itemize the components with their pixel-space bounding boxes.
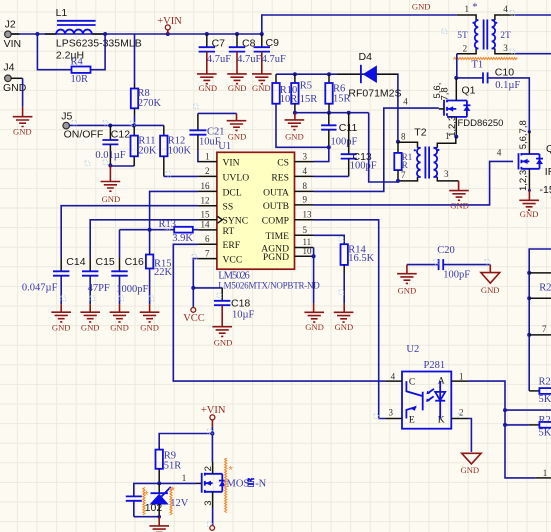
svg-text:U1: U1 <box>218 141 231 152</box>
node gate junction <box>157 481 161 485</box>
svg-text:RES: RES <box>271 172 289 183</box>
svg-text:-15: -15 <box>540 184 551 196</box>
svg-text:6: 6 <box>205 234 210 244</box>
svg-text:P281: P281 <box>424 360 446 371</box>
wire VCC pin to port <box>191 259 198 308</box>
wire DCL to R15 column <box>150 191 199 252</box>
transformer T2 <box>414 126 440 178</box>
wire T1 pin3 out <box>515 53 551 55</box>
svg-text:MOS: MOS <box>227 478 250 489</box>
svg-text:7: 7 <box>401 170 406 180</box>
power port +VIN top <box>157 16 182 34</box>
transformer T1 <box>457 2 511 70</box>
svg-text:C14: C14 <box>66 256 85 268</box>
svg-text:ON/OFF: ON/OFF <box>64 129 104 141</box>
svg-text:GND: GND <box>481 285 500 295</box>
svg-text:4: 4 <box>403 96 408 106</box>
svg-text:-N: -N <box>255 478 266 489</box>
svg-text:1: 1 <box>205 151 210 161</box>
svg-text:K: K <box>438 415 445 426</box>
svg-text:GND: GND <box>450 200 469 210</box>
ground symbol C7 <box>197 74 217 93</box>
capacitor C18 <box>214 288 255 327</box>
resistor R5 <box>291 74 317 113</box>
svg-text:2: 2 <box>203 466 214 471</box>
capacitor 102 <box>126 483 163 516</box>
svg-text:4: 4 <box>391 371 396 381</box>
svg-text:U2: U2 <box>406 344 419 355</box>
svg-text:8: 8 <box>303 181 308 191</box>
svg-text:UVLO: UVLO <box>223 172 250 183</box>
svg-text:3: 3 <box>203 501 214 506</box>
svg-text:1000pF: 1000pF <box>116 284 148 295</box>
U2 pin 4 C <box>385 371 415 387</box>
svg-text:2: 2 <box>205 166 210 176</box>
svg-text:+VIN: +VIN <box>157 16 182 27</box>
zener diode 12V <box>150 483 189 516</box>
svg-text:*: * <box>229 465 234 477</box>
svg-text:22K: 22K <box>154 267 173 278</box>
capacitor C8 <box>229 34 262 74</box>
wire +VIN to R9/MOSFET <box>159 427 214 447</box>
svg-text:OUTB: OUTB <box>263 201 289 212</box>
svg-text:100pF: 100pF <box>350 160 377 171</box>
svg-text:VCC: VCC <box>183 313 205 324</box>
svg-text:15: 15 <box>201 210 211 220</box>
U1 pin stubs <box>198 162 313 259</box>
svg-text:COMP: COMP <box>262 216 289 227</box>
svg-text:J5: J5 <box>61 111 72 123</box>
svg-text:FDD86250: FDD86250 <box>458 118 504 129</box>
T2 pin 7 <box>398 170 421 181</box>
svg-text:4.7uF: 4.7uF <box>207 54 231 65</box>
svg-text:7,8: 7,8 <box>440 87 451 100</box>
svg-text:GND: GND <box>140 322 159 332</box>
svg-text:10: 10 <box>303 246 313 256</box>
wire T1 pin2 down to node <box>454 54 458 80</box>
resistor R27 <box>505 415 551 439</box>
svg-text:LPS6235-335MLB: LPS6235-335MLB <box>56 37 142 49</box>
svg-text:L1: L1 <box>56 7 68 19</box>
wire COMP to U2 <box>314 220 386 419</box>
wire CS pin <box>314 147 329 161</box>
svg-text:270K: 270K <box>138 98 162 109</box>
MOS-N source lead <box>203 492 214 526</box>
svg-text:100K: 100K <box>168 145 192 156</box>
svg-text:1: 1 <box>543 468 548 478</box>
svg-text:GND: GND <box>110 322 129 332</box>
svg-text:GND: GND <box>13 127 32 137</box>
capacitor C12 <box>95 125 130 165</box>
svg-text:GND: GND <box>102 194 121 204</box>
wire R12 to UVLO <box>164 175 198 177</box>
node CS junction <box>327 145 331 149</box>
wire U2 pin4 stub <box>379 380 386 382</box>
svg-text:T2: T2 <box>414 126 426 138</box>
wire T1 pin4 out <box>515 14 551 16</box>
capacitor C15 <box>82 256 115 312</box>
svg-text:VCC: VCC <box>223 255 243 266</box>
svg-text:A: A <box>438 376 445 387</box>
resistor R24 label <box>539 282 551 293</box>
error marker under T1 <box>454 58 518 60</box>
T2 pin 1 <box>434 131 456 148</box>
ground symbol bottom <box>149 515 169 532</box>
svg-text:GND: GND <box>305 322 324 332</box>
resistor R12 <box>160 125 191 176</box>
svg-text:C15: C15 <box>96 256 115 268</box>
connector J4 <box>3 61 27 94</box>
svg-text:5K: 5K <box>539 427 551 438</box>
ground symbol T2 pin3 <box>449 181 469 211</box>
svg-text:*: * <box>171 485 176 497</box>
U1 part labels <box>218 270 320 290</box>
svg-text:4: 4 <box>303 166 308 176</box>
wire SYNC to C15 <box>90 220 198 271</box>
ground symbol C14 <box>51 312 71 332</box>
Q2 source lead <box>518 169 531 192</box>
svg-text:C: C <box>409 377 415 388</box>
capacitor C11 <box>321 113 357 148</box>
svg-text:7: 7 <box>542 324 547 334</box>
svg-text:R: R <box>402 160 408 170</box>
wire ERF long run to U2 <box>173 244 378 381</box>
ground symbol AGND <box>304 312 324 332</box>
svg-text:3: 3 <box>503 43 508 53</box>
svg-text:RF071M2S: RF071M2S <box>348 87 401 99</box>
ground symbol Q2 <box>519 190 539 219</box>
ground symbol C12 <box>101 166 121 204</box>
U2 pin 3 E <box>385 407 415 425</box>
connector J5 <box>61 111 103 141</box>
svg-text:C20: C20 <box>437 245 455 256</box>
capacitor C9 <box>254 34 286 74</box>
svg-text:1: 1 <box>182 473 187 483</box>
svg-text:0.1µF: 0.1µF <box>495 80 520 91</box>
ground symbol near C21 <box>227 121 247 142</box>
svg-text:102: 102 <box>145 502 163 514</box>
svg-text:GND: GND <box>398 285 417 295</box>
svg-text:GND: GND <box>228 132 247 142</box>
capacitor C20 <box>407 245 490 281</box>
svg-text:0.01µF: 0.01µF <box>95 150 125 161</box>
svg-text:GND: GND <box>198 83 217 93</box>
wire OUTB to Q2 gate <box>314 148 514 205</box>
pin 7 label right edge <box>542 324 547 334</box>
svg-text:IR: IR <box>545 166 551 178</box>
svg-text:GND: GND <box>520 209 539 219</box>
wire ON/OFF net <box>69 124 164 128</box>
svg-text:C7: C7 <box>212 37 226 49</box>
wire U2 pin2 to triangle ground <box>468 419 471 452</box>
resistor R26 <box>529 377 551 406</box>
svg-text:1: 1 <box>459 371 464 381</box>
ground symbol J4 <box>13 117 33 137</box>
svg-text:1: 1 <box>465 4 470 14</box>
svg-text:R5: R5 <box>300 80 312 91</box>
svg-text:4.7uF: 4.7uF <box>262 54 286 65</box>
wire rail riser to T1 <box>262 15 457 34</box>
svg-text:*: * <box>472 2 477 13</box>
svg-text:GND: GND <box>285 132 304 142</box>
svg-text:1: 1 <box>445 131 450 141</box>
svg-text:14: 14 <box>201 220 211 230</box>
svg-text:GND: GND <box>81 322 100 332</box>
right bus with R26 <box>527 249 551 391</box>
ground symbol C8 <box>227 74 247 93</box>
svg-text:J2: J2 <box>5 19 16 31</box>
svg-text:4: 4 <box>497 148 502 158</box>
ground symbol R14 <box>334 312 354 332</box>
Q1 drain lead <box>432 78 456 101</box>
wire RT / C16 net <box>120 228 199 272</box>
ground symbol C15 <box>80 312 100 332</box>
capacitor C14 <box>22 256 86 312</box>
capacitor C16 <box>111 256 148 312</box>
svg-text:C18: C18 <box>231 297 250 309</box>
wire C11 node to T2 pin7 <box>369 113 398 182</box>
svg-text:100pF: 100pF <box>443 270 470 281</box>
T1 pin 2 <box>457 43 479 53</box>
net label GND top <box>412 2 431 12</box>
selection marks (decorative light blue) <box>61 11 515 527</box>
capacitor C10 <box>457 66 531 133</box>
Q1 source lead <box>447 116 459 139</box>
svg-text:20K: 20K <box>138 145 157 156</box>
T1 pin 3 <box>492 43 515 54</box>
svg-text:PGND: PGND <box>263 252 289 263</box>
U1 pin names <box>218 158 290 266</box>
ground symbol C18 <box>212 327 232 348</box>
ground symbol C16 <box>110 312 130 332</box>
capacitor C13 <box>341 113 377 177</box>
svg-text:15R: 15R <box>333 93 351 104</box>
svg-text:13: 13 <box>303 210 313 220</box>
svg-text:OUTA: OUTA <box>263 187 289 198</box>
svg-text:7: 7 <box>205 248 210 258</box>
svg-text:R27: R27 <box>539 415 551 426</box>
svg-text:ERF: ERF <box>223 240 241 251</box>
svg-text:VIN: VIN <box>223 158 240 169</box>
svg-text:2T: 2T <box>500 31 511 41</box>
svg-text:Q: Q <box>546 143 551 155</box>
svg-text:Q1: Q1 <box>462 84 476 96</box>
resistor R15 <box>146 252 173 312</box>
svg-text:GND: GND <box>52 322 71 332</box>
U2 pin 2 K <box>438 407 468 425</box>
T2 pin 8 <box>398 132 421 148</box>
svg-text:9: 9 <box>303 195 308 205</box>
T1 pin 1 <box>457 4 479 20</box>
svg-text:2: 2 <box>459 407 464 417</box>
wire D4 node to T2 pin8 (vertical) <box>396 140 400 144</box>
svg-text:LM5026MTX/NOPBTR-ND: LM5026MTX/NOPBTR-ND <box>218 281 320 291</box>
svg-text:16: 16 <box>201 181 211 191</box>
resistor R11 <box>131 125 157 166</box>
resistor R9 <box>156 447 182 484</box>
inductor L1 <box>56 7 142 61</box>
svg-text:3: 3 <box>444 169 449 179</box>
svg-text:VIN: VIN <box>4 38 22 50</box>
power port +VIN bottom <box>201 405 226 426</box>
wire J4 to ground <box>11 78 23 116</box>
T1 pin 4 <box>492 4 515 20</box>
Q1 gate lead <box>439 108 444 110</box>
label MOS glyph <box>248 478 267 489</box>
wire RES net <box>314 175 349 177</box>
svg-text:C8: C8 <box>242 37 256 49</box>
svg-text:0.047µF: 0.047µF <box>22 282 58 293</box>
junction dots VIN rail <box>35 32 263 36</box>
connector J2 <box>4 19 22 50</box>
svg-text:RT: RT <box>223 226 235 237</box>
svg-text:15R: 15R <box>300 94 318 105</box>
resistor R1 <box>394 142 412 183</box>
node C12/R11 junction <box>108 164 112 168</box>
svg-text:R24: R24 <box>539 282 551 293</box>
transistor MOS-N <box>202 473 250 493</box>
optocoupler U2 P281 box <box>402 344 451 429</box>
svg-text:SS: SS <box>223 202 234 213</box>
svg-text:C12: C12 <box>111 128 130 140</box>
capacitor C7 <box>199 34 232 74</box>
op-amp/controller U1 LM5026 box <box>217 141 295 269</box>
resistor R14 <box>341 242 375 313</box>
svg-text:D4: D4 <box>359 51 373 63</box>
svg-text:5,6,7,8: 5,6,7,8 <box>518 120 529 149</box>
svg-text:DCL: DCL <box>223 187 242 198</box>
svg-text:51R: 51R <box>164 460 182 471</box>
svg-text:C16: C16 <box>125 256 144 268</box>
svg-text:10R: 10R <box>71 74 89 85</box>
svg-text:1,2,3: 1,2,3 <box>518 170 529 191</box>
svg-text:*: * <box>144 490 149 502</box>
svg-text:E: E <box>409 415 415 426</box>
svg-text:GND: GND <box>214 337 233 347</box>
U1 pin numbers <box>201 151 313 258</box>
diode D4 <box>348 51 401 100</box>
wire OUTA to Q1 gate <box>314 96 439 191</box>
svg-text:R26: R26 <box>539 377 551 388</box>
T2 pin 3 <box>434 169 459 181</box>
U2 inner LED <box>426 381 445 418</box>
resistor R4 <box>71 57 91 86</box>
wire R5/R6 bottom node <box>293 111 369 115</box>
svg-text:GND: GND <box>412 2 431 12</box>
ground symbol C20 right (triangle) <box>481 265 500 295</box>
wire VIN rail <box>12 33 262 35</box>
wire SS to C14 <box>61 206 198 272</box>
svg-text:CS: CS <box>277 158 289 169</box>
resistor R8 <box>131 34 162 125</box>
svg-text:GND: GND <box>228 83 247 93</box>
wire gate run <box>159 473 202 484</box>
svg-text:4.7uF: 4.7uF <box>237 54 261 65</box>
svg-text:R13: R13 <box>159 219 177 230</box>
svg-text:T1: T1 <box>472 60 484 71</box>
svg-text:100pF: 100pF <box>331 137 358 148</box>
transistor Q1 FDD86250 <box>444 84 503 128</box>
wire TIME to R14 <box>314 235 345 241</box>
wire top node R10-R5-R6-D4 <box>276 72 398 142</box>
svg-text:4: 4 <box>503 4 508 14</box>
svg-text:GND: GND <box>252 83 271 93</box>
svg-text:C10: C10 <box>495 66 514 78</box>
capacitor C21 <box>189 113 224 161</box>
svg-text:R4: R4 <box>71 57 84 68</box>
wire C21 top to ground <box>198 113 237 120</box>
svg-text:3: 3 <box>389 407 394 417</box>
power port VCC <box>183 308 205 324</box>
svg-text:J4: J4 <box>3 61 14 73</box>
svg-text:C9: C9 <box>266 37 280 49</box>
svg-text:10µF: 10µF <box>232 310 255 321</box>
pin 1 stub bottom right <box>535 468 551 478</box>
svg-text:12V: 12V <box>170 498 189 509</box>
svg-text:5T: 5T <box>457 31 468 41</box>
power port bottom circle <box>210 526 215 531</box>
wire R11 to C12 node <box>111 165 135 167</box>
svg-text:2: 2 <box>463 43 468 53</box>
U2 pin 1 A <box>438 371 468 386</box>
U2 inner phototransistor <box>406 381 422 418</box>
svg-text:3.9K: 3.9K <box>172 233 193 244</box>
Q2 drain lead <box>518 120 530 154</box>
svg-text:16.5K: 16.5K <box>348 253 374 264</box>
wire L1 bypass loop <box>37 34 105 70</box>
resistor R10 <box>272 74 329 147</box>
ground symbol C9 <box>252 74 272 93</box>
svg-text:3: 3 <box>303 151 308 161</box>
svg-text:GND: GND <box>460 465 479 475</box>
svg-text:TIME: TIME <box>266 231 290 242</box>
wire node to edge (row 410) <box>505 409 551 411</box>
error markers bottom block <box>143 458 234 515</box>
svg-text:8: 8 <box>401 132 406 142</box>
svg-text:5K: 5K <box>539 394 551 405</box>
ground symbol R5 <box>285 113 305 142</box>
wire AGND/PGND <box>312 248 316 313</box>
resistor R13 <box>159 219 194 244</box>
svg-text:12: 12 <box>201 195 210 205</box>
svg-text:47PF: 47PF <box>88 283 110 294</box>
transistor Q2 <box>519 143 551 196</box>
resistor R6 <box>325 74 350 113</box>
svg-text:GND: GND <box>335 322 354 332</box>
svg-text:5: 5 <box>303 225 308 235</box>
wire U2 pin1 out <box>468 381 535 478</box>
ground symbol R15 <box>140 312 160 332</box>
ground symbol C20 left <box>397 265 417 296</box>
wire VCC branch to C18 <box>193 287 222 289</box>
ground symbol U2 (triangle) <box>460 453 481 475</box>
MOS-N drain lead <box>203 434 214 474</box>
